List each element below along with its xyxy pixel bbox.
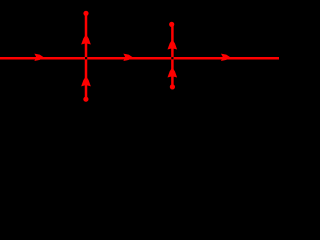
- wire: horizontal segment right (node B to edge): [174, 57, 280, 60]
- arrow right 2 on horizontal wire: [124, 54, 132, 61]
- node dot: vertical 1 top: [83, 11, 88, 16]
- arrow up, vertical 2 lower: [168, 68, 177, 77]
- wire: vertical 2 lower segment: [171, 59, 174, 87]
- node dot: vertical 1 bottom: [83, 97, 88, 102]
- wire: vertical 1 upper segment: [85, 13, 88, 57]
- arrow right 1 on horizontal wire: [35, 54, 43, 61]
- wire: vertical 2 upper segment: [171, 24, 174, 57]
- node dot: vertical 2 bottom: [170, 84, 175, 89]
- wire: horizontal segment middle (node A to node B): [87, 57, 171, 60]
- arrow right 3 on horizontal wire: [222, 54, 230, 61]
- arrow up, vertical 1 upper: [82, 35, 91, 44]
- node dot: vertical 2 top: [169, 22, 174, 27]
- wire: vertical 1 lower segment: [85, 59, 88, 99]
- arrow up, vertical 2 upper: [168, 40, 177, 49]
- arrow up, vertical 1 lower: [82, 77, 91, 86]
- wire: horizontal segment left (edge to node A): [0, 57, 85, 60]
